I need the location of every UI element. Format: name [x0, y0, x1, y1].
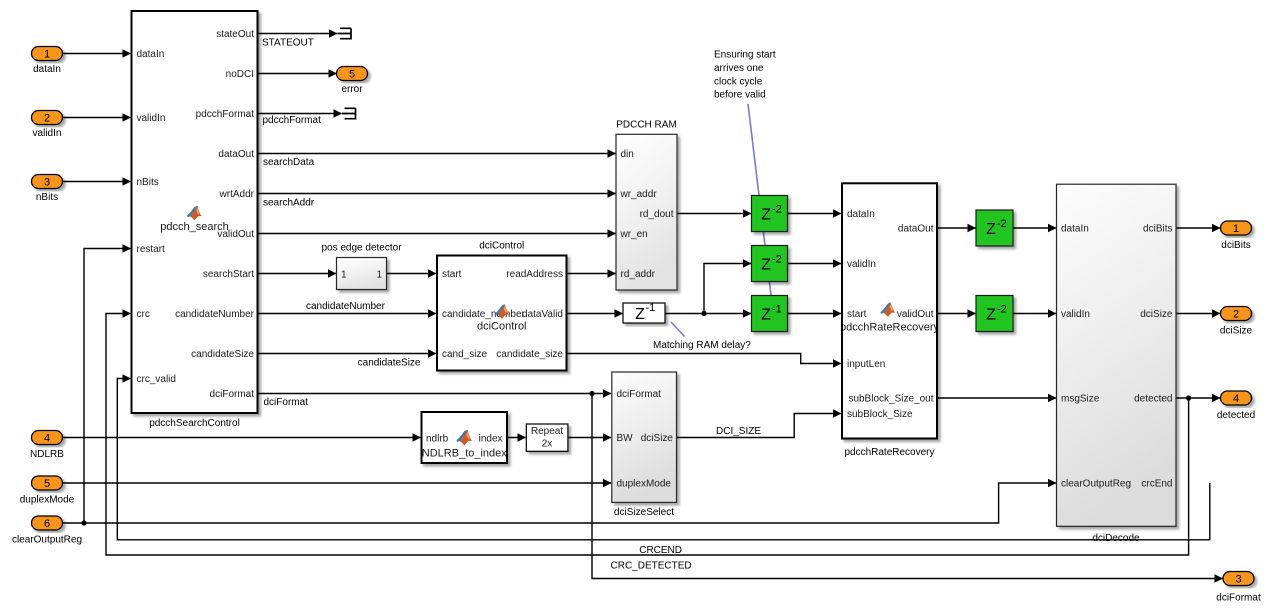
- svg-text:dataIn: dataIn: [1061, 224, 1089, 235]
- svg-text:pdcchSearchControl: pdcchSearchControl: [149, 418, 240, 429]
- svg-text:clearOutputReg: clearOutputReg: [1061, 479, 1131, 490]
- svg-text:pdcch_search: pdcch_search: [160, 221, 229, 233]
- svg-text:2: 2: [44, 113, 50, 125]
- svg-text:ndlrb: ndlrb: [426, 434, 449, 445]
- svg-text:dciControl: dciControl: [477, 321, 527, 333]
- svg-text:Z: Z: [635, 306, 645, 323]
- svg-text:dataOut: dataOut: [218, 149, 254, 160]
- svg-text:-2: -2: [997, 218, 1007, 230]
- svg-text:searchStart: searchStart: [203, 269, 254, 280]
- svg-text:readAddress: readAddress: [506, 269, 563, 280]
- svg-text:dciFormat: dciFormat: [1216, 593, 1261, 604]
- svg-text:nBits: nBits: [36, 192, 58, 203]
- svg-text:candidate_size: candidate_size: [496, 349, 563, 360]
- svg-text:PDCCH RAM: PDCCH RAM: [616, 120, 677, 131]
- svg-text:crc_valid: crc_valid: [137, 374, 176, 385]
- svg-text:arrives one: arrives one: [714, 63, 764, 74]
- svg-text:validIn: validIn: [33, 128, 62, 139]
- svg-text:restart: restart: [137, 244, 166, 255]
- svg-text:dataIn: dataIn: [847, 209, 875, 220]
- svg-text:STATEOUT: STATEOUT: [262, 38, 314, 49]
- svg-text:1: 1: [341, 270, 347, 281]
- svg-text:candidateSize: candidateSize: [191, 349, 254, 360]
- svg-text:validIn: validIn: [1061, 309, 1090, 320]
- svg-text:1: 1: [376, 270, 382, 281]
- svg-text:dciControl: dciControl: [479, 241, 524, 252]
- svg-text:searchData: searchData: [263, 157, 315, 168]
- svg-text:dataIn: dataIn: [137, 49, 165, 60]
- svg-text:Z: Z: [986, 221, 996, 238]
- svg-text:candidateNumber: candidateNumber: [175, 309, 255, 320]
- svg-text:msgSize: msgSize: [1061, 394, 1100, 405]
- svg-text:validIn: validIn: [847, 259, 876, 270]
- svg-text:validOut: validOut: [897, 309, 934, 320]
- svg-text:wr_en: wr_en: [620, 229, 648, 240]
- svg-text:clearOutputReg: clearOutputReg: [12, 535, 82, 546]
- svg-text:inputLen: inputLen: [847, 359, 885, 370]
- svg-text:-2: -2: [772, 254, 782, 266]
- svg-text:Z: Z: [761, 307, 771, 324]
- svg-text:3: 3: [1235, 574, 1241, 586]
- svg-text:candidate_number: candidate_number: [442, 309, 526, 320]
- svg-text:dataValid: dataValid: [522, 309, 563, 320]
- svg-text:searchAddr: searchAddr: [263, 198, 315, 209]
- svg-text:-1: -1: [772, 304, 782, 316]
- svg-text:1: 1: [44, 49, 50, 61]
- svg-text:stateOut: stateOut: [216, 29, 254, 40]
- svg-text:pdcchFormat: pdcchFormat: [263, 115, 322, 126]
- svg-text:dciBits: dciBits: [1221, 240, 1250, 251]
- svg-text:din: din: [621, 149, 634, 160]
- svg-text:dciDecode: dciDecode: [1092, 533, 1140, 544]
- svg-text:Z: Z: [761, 257, 771, 274]
- svg-text:pdcchFormat: pdcchFormat: [196, 109, 255, 120]
- svg-text:Ensuring start: Ensuring start: [714, 50, 776, 61]
- svg-text:pdcchRateRecovery: pdcchRateRecovery: [840, 322, 940, 334]
- svg-text:dciFormat: dciFormat: [617, 389, 662, 400]
- svg-text:candidateNumber: candidateNumber: [306, 301, 386, 312]
- svg-text:NDLRB: NDLRB: [30, 449, 64, 460]
- svg-text:nBits: nBits: [137, 177, 159, 188]
- svg-text:dciSize: dciSize: [641, 433, 674, 444]
- svg-text:Z: Z: [986, 307, 996, 324]
- svg-text:validIn: validIn: [137, 113, 166, 124]
- svg-text:duplexMode: duplexMode: [20, 495, 75, 506]
- svg-text:dciSize: dciSize: [1220, 326, 1253, 337]
- svg-text:Z: Z: [761, 207, 771, 224]
- svg-text:2x: 2x: [542, 439, 553, 450]
- svg-text:CRCEND: CRCEND: [639, 545, 682, 556]
- svg-text:noDCI: noDCI: [226, 69, 254, 80]
- svg-text:Matching RAM delay?: Matching RAM delay?: [653, 340, 751, 351]
- svg-text:dciSizeSelect: dciSizeSelect: [614, 507, 674, 518]
- svg-text:wrtAddr: wrtAddr: [219, 189, 255, 200]
- svg-text:-2: -2: [997, 304, 1007, 316]
- svg-text:start: start: [847, 309, 867, 320]
- svg-text:-1: -1: [646, 302, 656, 314]
- svg-text:dciBits: dciBits: [1143, 224, 1172, 235]
- svg-text:rd_dout: rd_dout: [640, 209, 674, 220]
- svg-text:5: 5: [44, 478, 50, 490]
- svg-text:cand_size: cand_size: [442, 349, 487, 360]
- svg-text:crc: crc: [137, 309, 150, 320]
- svg-text:4: 4: [44, 433, 50, 445]
- svg-text:dciFormat: dciFormat: [264, 397, 309, 408]
- svg-text:BW: BW: [617, 433, 634, 444]
- svg-text:clock cycle: clock cycle: [714, 76, 763, 87]
- svg-text:-2: -2: [772, 204, 782, 216]
- svg-text:dataIn: dataIn: [33, 64, 61, 75]
- svg-text:wr_addr: wr_addr: [620, 189, 658, 200]
- svg-text:rd_addr: rd_addr: [621, 269, 656, 280]
- svg-text:duplexMode: duplexMode: [617, 479, 672, 490]
- svg-text:DCI_SIZE: DCI_SIZE: [716, 426, 761, 437]
- svg-text:detected: detected: [1217, 410, 1255, 421]
- svg-text:5: 5: [349, 69, 355, 81]
- svg-text:1: 1: [1233, 223, 1239, 235]
- svg-text:dciSize: dciSize: [1140, 309, 1173, 320]
- svg-text:index: index: [479, 434, 503, 445]
- svg-text:Repeat: Repeat: [531, 426, 563, 437]
- svg-text:subBlock_Size_out: subBlock_Size_out: [848, 394, 933, 405]
- svg-text:error: error: [341, 84, 363, 95]
- svg-text:4: 4: [1233, 393, 1239, 405]
- svg-text:detected: detected: [1134, 394, 1172, 405]
- svg-text:2: 2: [1233, 309, 1239, 321]
- svg-text:candidateSize: candidateSize: [358, 358, 421, 369]
- svg-text:subBlock_Size: subBlock_Size: [847, 409, 913, 420]
- svg-text:crcEnd: crcEnd: [1141, 479, 1172, 490]
- svg-text:6: 6: [44, 518, 50, 530]
- svg-text:3: 3: [44, 177, 50, 189]
- svg-text:start: start: [442, 269, 462, 280]
- svg-text:NDLRB_to_index: NDLRB_to_index: [422, 448, 507, 460]
- svg-text:before valid: before valid: [714, 90, 766, 101]
- svg-text:dataOut: dataOut: [898, 224, 934, 235]
- svg-text:CRC_DETECTED: CRC_DETECTED: [611, 561, 692, 572]
- svg-text:pdcchRateRecovery: pdcchRateRecovery: [844, 447, 934, 458]
- svg-text:dciFormat: dciFormat: [210, 389, 255, 400]
- svg-text:pos edge detector: pos edge detector: [321, 243, 402, 254]
